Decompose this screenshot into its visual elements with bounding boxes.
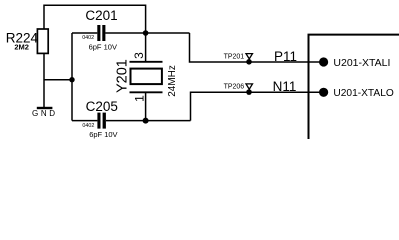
svg-text:C201: C201 <box>85 8 117 23</box>
svg-text:0402: 0402 <box>82 35 94 41</box>
svg-text:C205: C205 <box>86 99 118 114</box>
svg-text:P11: P11 <box>274 49 297 64</box>
svg-text:N11: N11 <box>273 79 297 94</box>
svg-text:6pF 10V: 6pF 10V <box>89 130 117 139</box>
svg-text:Y201: Y201 <box>115 59 131 93</box>
svg-text:6pF 10V: 6pF 10V <box>89 42 117 51</box>
svg-text:3: 3 <box>132 52 146 59</box>
svg-text:TP201: TP201 <box>224 53 245 60</box>
svg-text:24MHz: 24MHz <box>167 65 178 97</box>
svg-text:TP206: TP206 <box>224 84 245 91</box>
svg-text:GND: GND <box>32 109 58 118</box>
svg-text:U201-XTALI: U201-XTALI <box>333 57 390 69</box>
svg-text:1: 1 <box>133 95 147 102</box>
svg-text:U201-XTALO: U201-XTALO <box>333 88 393 99</box>
svg-text:0402: 0402 <box>82 123 94 129</box>
svg-text:2M2: 2M2 <box>14 43 29 52</box>
